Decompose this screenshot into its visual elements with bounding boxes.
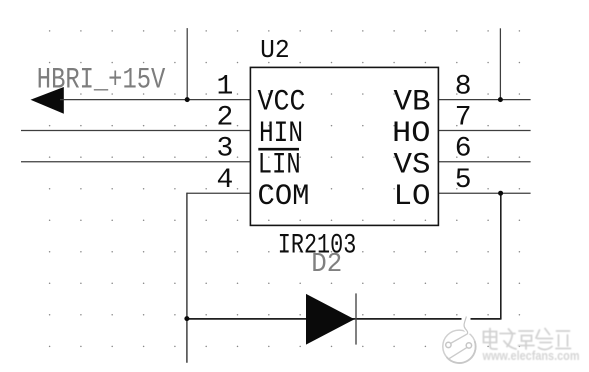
wire from pin 8 VB [439, 99, 531, 101]
watermark chinese text [484, 329, 571, 350]
svg-text:www.elecfans.com: www.elecfans.com [482, 349, 580, 363]
wire to pin 3 LIN [21, 161, 250, 163]
junction node at pin 8 wire [498, 97, 503, 102]
svg-text:7: 7 [455, 102, 472, 133]
svg-text:5: 5 [455, 165, 472, 196]
diode D2 triangle [306, 294, 355, 345]
wire bottom horizontal through diode D2 [187, 318, 501, 320]
svg-text:LIN: LIN [258, 149, 301, 182]
svg-text:6: 6 [455, 134, 472, 165]
svg-text:VB: VB [394, 86, 431, 119]
svg-text:VCC: VCC [258, 86, 306, 119]
junction node at pin 5 wire [498, 191, 503, 196]
junction node at diode anode [184, 316, 189, 321]
svg-text:1: 1 [216, 71, 233, 102]
watermark logo circle [443, 316, 476, 363]
wire vertical stub above pin 1 junction [186, 28, 188, 100]
wire HBRI_+15V to pin 1 [60, 99, 250, 101]
svg-text:HO: HO [392, 117, 431, 150]
wire from pin 7 HO [439, 130, 531, 132]
wire right vertical from pin 5 LO down to diode cathode [500, 193, 502, 319]
wire from pin 5 LO [439, 192, 531, 194]
svg-text:8: 8 [455, 71, 472, 102]
svg-text:3: 3 [216, 134, 233, 165]
wire vertical stub above pin 8 junction [499, 28, 501, 99]
wire to pin 4 COM horizontal [187, 192, 250, 194]
junction node at pin 1 wire [185, 97, 190, 102]
svg-text:D2: D2 [311, 249, 342, 279]
overline bar above LIN [258, 148, 299, 151]
svg-text:COM: COM [258, 180, 310, 213]
IC U2 body rectangle [250, 67, 438, 225]
wire to pin 2 HIN [21, 130, 250, 132]
svg-text:U2: U2 [260, 35, 290, 65]
svg-text:VS: VS [394, 149, 431, 182]
wire left vertical from COM down to diode anode row [186, 193, 188, 363]
svg-text:4: 4 [216, 165, 233, 196]
wire from pin 6 VS [439, 161, 531, 163]
svg-text:2: 2 [216, 102, 233, 133]
svg-text:LO: LO [394, 180, 431, 213]
svg-text:HIN: HIN [259, 117, 303, 150]
power port arrow HBRI_+15V [31, 87, 64, 114]
diode D2 cathode bar [355, 293, 357, 344]
